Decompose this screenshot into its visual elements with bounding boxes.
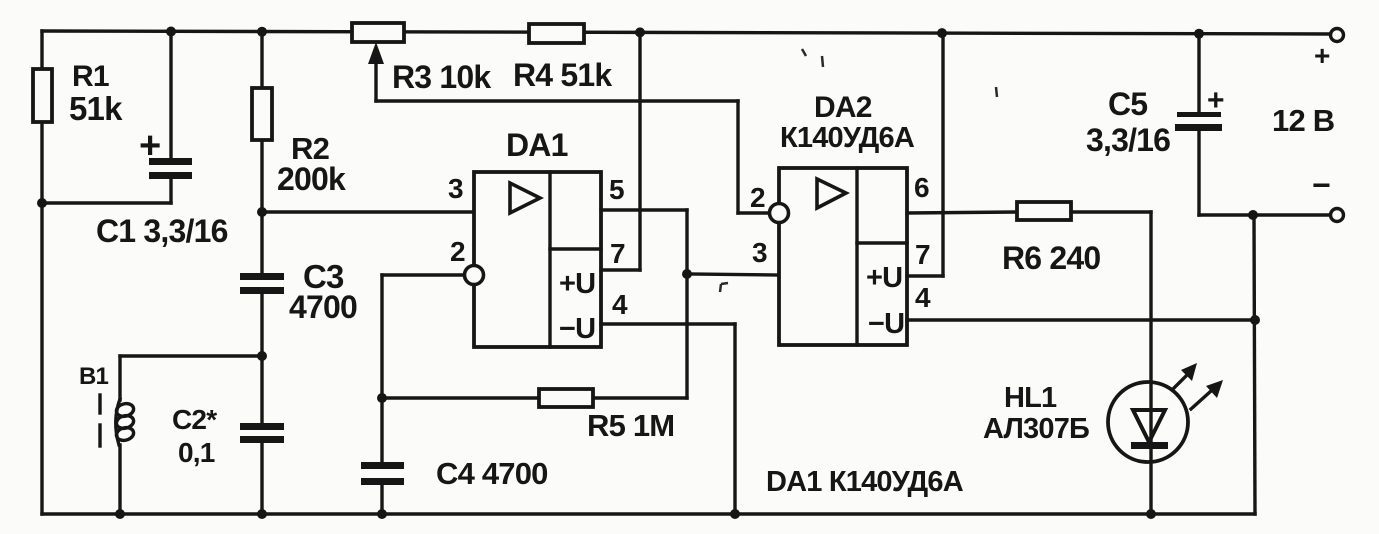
svg-text:+: +	[1314, 40, 1330, 71]
node junction C5 top	[1194, 29, 1204, 39]
capacitor C2	[172, 404, 284, 468]
svg-text:5: 5	[609, 174, 624, 205]
wire DA1 pin2 input	[382, 275, 465, 398]
wire DA1 pin3 input	[262, 210, 474, 213]
resistor R4	[513, 24, 612, 93]
svg-text:0,1: 0,1	[178, 437, 215, 468]
wire top supply rail	[42, 31, 1331, 34]
svg-text:R1: R1	[72, 60, 109, 93]
wire C1 branch vertical	[42, 31, 171, 203]
wire feedback R5	[382, 274, 687, 398]
wire DA1 pin4 to ground	[601, 324, 735, 514]
node junction R2 top	[257, 27, 267, 37]
node junction pin4 ground	[730, 509, 740, 519]
svg-text:+U: +U	[559, 268, 595, 300]
svg-text:C4 4700: C4 4700	[436, 456, 548, 491]
wire left rail	[40, 31, 43, 514]
wire R2/C3/C2 branch vertical	[260, 31, 263, 514]
svg-text:R6 240: R6 240	[1002, 240, 1100, 276]
svg-text:АЛ307Б: АЛ307Б	[983, 413, 1089, 445]
node junction C1 top	[166, 27, 176, 37]
potentiometer R3	[352, 23, 491, 101]
svg-text:7: 7	[610, 238, 625, 269]
resistor R6	[1002, 202, 1100, 276]
wire DA2 pin6 output to R6	[907, 212, 1017, 213]
svg-text:C1 3,3/16: C1 3,3/16	[96, 213, 228, 249]
svg-text:DA1: DA1	[506, 127, 568, 163]
node junction minus rail	[1248, 210, 1258, 220]
node junction R5 left	[377, 393, 387, 403]
node junction DA1 out	[682, 269, 692, 279]
svg-text:200k: 200k	[277, 161, 346, 197]
svg-text:+U: +U	[866, 262, 902, 294]
svg-text:4700: 4700	[289, 289, 357, 325]
op-amp U DA2	[770, 91, 915, 345]
svg-text:7: 7	[915, 239, 930, 270]
wire bottom ground rail	[42, 512, 1255, 515]
svg-text:3: 3	[448, 173, 463, 204]
svg-text:2: 2	[450, 236, 465, 267]
capacitor C5	[1086, 33, 1224, 215]
svg-text:12 В: 12 В	[1272, 103, 1334, 138]
node junction pin4 minus	[1250, 315, 1260, 325]
svg-text:C2*: C2*	[172, 404, 217, 435]
svg-text:+: +	[1207, 84, 1224, 117]
svg-text:3,3/16: 3,3/16	[1086, 122, 1170, 158]
svg-text:−: −	[1312, 167, 1330, 203]
wire DA2 pin4	[907, 318, 1255, 321]
node junction DA2 pin7 rail	[937, 28, 947, 38]
svg-text:+: +	[139, 125, 160, 167]
svg-text:2: 2	[750, 182, 765, 213]
svg-text:51k: 51k	[69, 90, 123, 127]
svg-text:HL1: HL1	[1004, 382, 1057, 414]
node junction LED ground	[1146, 509, 1156, 519]
svg-text:DA2: DA2	[814, 91, 872, 124]
node junction C1 bottom left	[37, 198, 47, 208]
wire DA2 pin7 to +rail	[907, 33, 943, 276]
resistor R5	[539, 389, 674, 443]
svg-text:B1: B1	[79, 363, 109, 390]
svg-text:−U: −U	[868, 308, 904, 340]
svg-text:К140УД6А: К140УД6А	[780, 122, 915, 154]
node junction B1 branch	[257, 351, 267, 361]
svg-text:C5: C5	[1108, 86, 1147, 122]
wire DA1 pin5 output	[601, 210, 687, 274]
svg-text:4: 4	[915, 282, 931, 313]
wire B1 branch	[120, 356, 262, 514]
wire minus rail	[1199, 213, 1330, 216]
node junction C2 bottom	[257, 509, 267, 519]
svg-text:−U: −U	[559, 313, 595, 345]
capacitor C3	[240, 258, 357, 325]
resistor R2	[252, 88, 346, 197]
sensor coil B1	[79, 363, 135, 446]
wire R6 to LED	[1071, 212, 1151, 514]
svg-text:6: 6	[914, 172, 929, 203]
terminal plus	[1314, 29, 1344, 72]
capacitor C4	[361, 398, 548, 514]
wire R3 wiper to DA2 pin2	[376, 101, 770, 213]
wire minus down to ground	[1254, 215, 1255, 514]
LED HL1	[983, 363, 1223, 462]
op-amp U DA1	[465, 127, 602, 347]
svg-text:R3 10k: R3 10k	[392, 59, 491, 95]
scan speckle marks	[720, 49, 997, 292]
svg-text:3: 3	[752, 237, 767, 268]
node junction R2 bottom	[257, 207, 267, 217]
resistor R1	[33, 60, 123, 127]
node junction R4 right	[635, 27, 645, 37]
wire DA2 pin3 input	[687, 274, 779, 275]
wire DA1 pin7 to +rail	[601, 33, 640, 270]
node junction B1 bottom	[115, 509, 125, 519]
svg-text:4: 4	[612, 289, 628, 320]
node junction C4 bottom	[377, 509, 387, 519]
capacitor C1	[139, 125, 192, 179]
terminal minus	[1312, 167, 1344, 222]
svg-text:R5 1M: R5 1M	[587, 408, 674, 443]
svg-text:DA1 К140УД6А: DA1 К140УД6А	[766, 466, 964, 498]
svg-text:R4 51k: R4 51k	[513, 57, 612, 93]
